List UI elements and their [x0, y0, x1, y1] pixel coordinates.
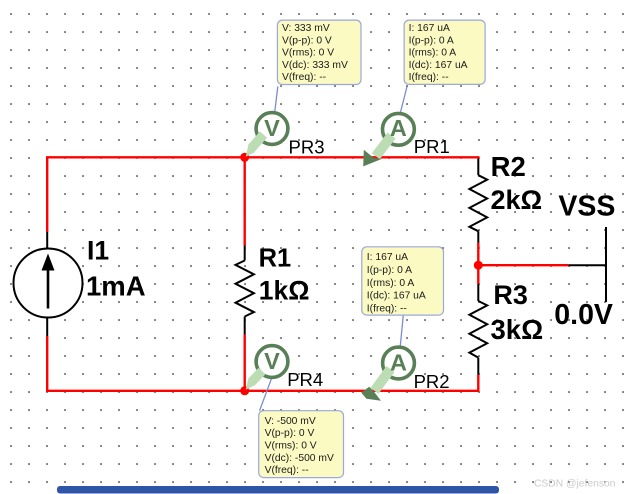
svg-text:I(p-p): 0 A: I(p-p): 0 A: [367, 265, 412, 276]
svg-text:V: 333 mV: V: 333 mV: [282, 23, 330, 34]
svg-text:I(rms): 0 A: I(rms): 0 A: [409, 48, 457, 59]
svg-text:PR3: PR3: [289, 136, 325, 157]
svg-text:1mA: 1mA: [86, 270, 146, 301]
svg-text:I(rms): 0 A: I(rms): 0 A: [367, 278, 415, 289]
svg-text:0.0V: 0.0V: [554, 299, 613, 331]
svg-text:V(dc): -500 mV: V(dc): -500 mV: [265, 453, 334, 464]
svg-text:I: 167 uA: I: 167 uA: [367, 252, 408, 263]
svg-text:V(rms): 0 V: V(rms): 0 V: [282, 48, 334, 59]
svg-text:3kΩ: 3kΩ: [491, 314, 544, 345]
svg-text:CSDN @jefenson: CSDN @jefenson: [534, 478, 616, 489]
svg-text:R3: R3: [493, 280, 528, 310]
svg-text:A: A: [390, 349, 407, 375]
svg-text:I(p-p): 0 A: I(p-p): 0 A: [409, 35, 454, 46]
svg-text:1kΩ: 1kΩ: [259, 275, 310, 305]
svg-text:I: 167 uA: I: 167 uA: [409, 23, 450, 34]
svg-text:I(dc): 167 uA: I(dc): 167 uA: [409, 60, 468, 71]
svg-text:PR4: PR4: [287, 369, 323, 390]
svg-text:V(rms): 0 V: V(rms): 0 V: [265, 441, 317, 452]
svg-text:PR2: PR2: [414, 371, 450, 392]
svg-text:V: -500 mV: V: -500 mV: [265, 416, 316, 427]
svg-text:A: A: [390, 115, 407, 141]
svg-text:V(dc): 333 mV: V(dc): 333 mV: [282, 60, 348, 71]
svg-text:V(freq): --: V(freq): --: [282, 72, 326, 83]
svg-text:I(dc): 167 uA: I(dc): 167 uA: [367, 291, 426, 302]
svg-text:R1: R1: [259, 245, 292, 273]
svg-text:V(p-p): 0 V: V(p-p): 0 V: [282, 35, 332, 46]
svg-text:I(freq): --: I(freq): --: [367, 303, 407, 314]
svg-text:V(freq): --: V(freq): --: [265, 465, 309, 476]
svg-text:V: V: [264, 115, 280, 141]
svg-text:VSS: VSS: [558, 190, 615, 222]
svg-text:I1: I1: [87, 236, 109, 266]
svg-text:V: V: [264, 348, 280, 374]
svg-text:2kΩ: 2kΩ: [491, 185, 543, 215]
svg-text:R2: R2: [491, 151, 526, 182]
svg-text:I(freq): --: I(freq): --: [409, 72, 449, 83]
svg-text:PR1: PR1: [414, 136, 450, 157]
svg-text:V(p-p): 0 V: V(p-p): 0 V: [265, 428, 315, 439]
